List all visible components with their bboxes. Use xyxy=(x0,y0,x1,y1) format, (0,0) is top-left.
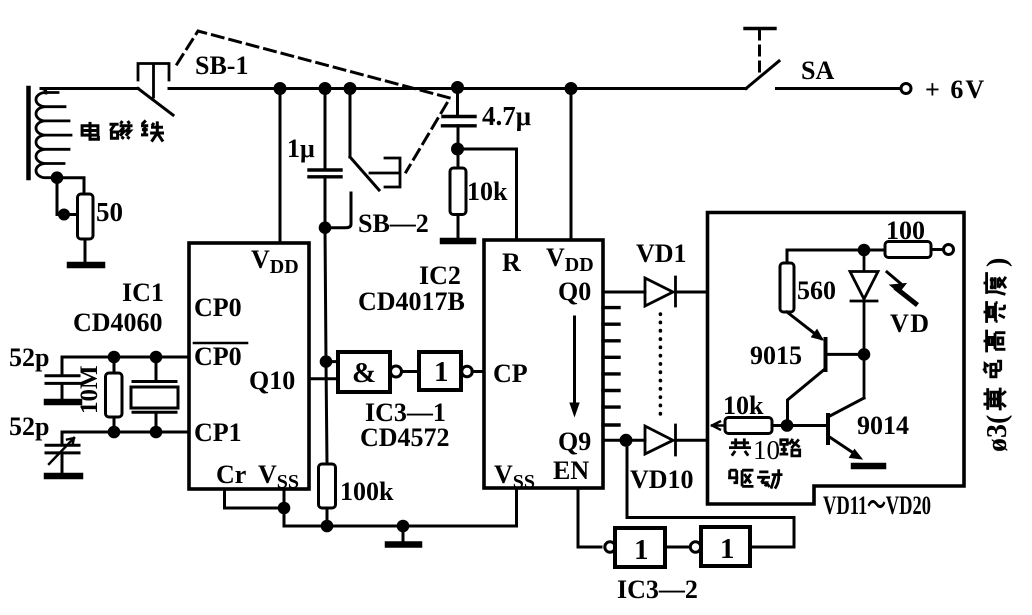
svg-text:1: 1 xyxy=(720,533,735,565)
label SA xyxy=(801,56,834,85)
svg-text:9015: 9015 xyxy=(750,341,802,370)
node Q9 junction xyxy=(621,435,631,445)
svg-text:EN: EN xyxy=(553,456,589,485)
wire ground rail bottom xyxy=(284,488,517,526)
node 1u cap rail junction xyxy=(320,84,330,94)
switch SB-2 button bracket xyxy=(370,158,400,187)
pin label VDD of IC2 xyxy=(546,243,594,276)
LED VD xyxy=(850,250,878,398)
wire IC3-2 output loop to Q9 node xyxy=(627,440,794,547)
svg-text:VD10: VD10 xyxy=(630,465,694,494)
ground center bottom xyxy=(388,526,419,545)
node coil bottom junction xyxy=(52,173,62,183)
transistor 9014 xyxy=(828,398,864,459)
svg-text:IC1: IC1 xyxy=(122,278,164,307)
svg-text:Cr: Cr xyxy=(216,460,246,489)
capacitor 1u xyxy=(309,170,341,177)
crystal XT xyxy=(131,357,178,432)
IC2 box CD4017B xyxy=(484,240,603,488)
wire IC1 Cr to VSS xyxy=(225,489,285,508)
svg-text:): ) xyxy=(982,258,1013,267)
svg-text:4.7μ: 4.7μ xyxy=(482,101,531,131)
gate IC3-1 AND xyxy=(338,352,402,392)
label 560 xyxy=(797,276,836,305)
pin label CP1 of IC1 xyxy=(194,418,242,447)
switch SB-2 top wire xyxy=(349,89,352,158)
ground under 52p fixed xyxy=(47,399,79,406)
wire inverter to IC2 CP xyxy=(472,370,484,373)
pin label VSS of IC1 xyxy=(258,460,299,493)
wire coil bottom to resistor top xyxy=(57,178,84,194)
label 100 xyxy=(886,216,925,245)
node IC1 VDD rail junction xyxy=(275,84,285,94)
svg-text:1μ: 1μ xyxy=(287,134,315,163)
label 9015 xyxy=(750,341,802,370)
wire 4.7u cap to node xyxy=(457,126,460,149)
svg-text:10k: 10k xyxy=(723,391,764,420)
svg-text:Q10: Q10 xyxy=(249,366,295,395)
svg-text:CD4060: CD4060 xyxy=(73,308,163,337)
svg-text:1: 1 xyxy=(434,356,449,388)
pin label Q0 of IC2 xyxy=(558,277,591,306)
node 100k bottom junction xyxy=(322,521,332,531)
wire SA to +6V terminal xyxy=(777,87,901,90)
svg-text:IC2: IC2 xyxy=(419,261,461,290)
dashed linkage SB-1 to SB-2 xyxy=(177,31,450,172)
resistor 100 xyxy=(885,242,943,258)
label 4.7u xyxy=(482,101,531,131)
node 4.7u cap rail junction xyxy=(453,83,463,93)
pin label Q10 of IC1 xyxy=(249,366,295,395)
resistor 100k xyxy=(319,464,336,526)
svg-text:52p: 52p xyxy=(9,412,49,441)
label CD4572 xyxy=(360,423,450,452)
label 52p bottom xyxy=(9,412,49,441)
wire top supply rail main segment xyxy=(169,87,746,90)
label 驱动 xyxy=(728,469,782,488)
wire 10k to 9014 base xyxy=(772,424,827,427)
resistor 50 xyxy=(78,194,94,239)
wire coil tap to resistor side xyxy=(57,178,77,215)
label CD4060 xyxy=(73,308,163,337)
label +6V xyxy=(925,75,986,104)
label 9014 xyxy=(857,411,909,440)
pin label EN of IC2 xyxy=(553,456,589,485)
svg-text:CP0: CP0 xyxy=(194,293,242,322)
pin label Q9 of IC2 xyxy=(558,427,591,456)
capacitor 52p trimmer xyxy=(46,432,79,473)
switch SB-2 blade xyxy=(350,157,379,190)
svg-text:CP: CP xyxy=(493,359,528,388)
svg-text:ø3(: ø3( xyxy=(982,415,1013,452)
wire resistor 50 to ground xyxy=(84,239,87,263)
ground under 52p trimmer xyxy=(47,473,80,480)
svg-text:10k: 10k xyxy=(467,177,508,206)
svg-text:CP1: CP1 xyxy=(194,418,242,447)
label IC3-1 xyxy=(365,398,446,427)
svg-text:SB—2: SB—2 xyxy=(358,209,429,238)
capacitor 4.7u xyxy=(443,117,476,126)
svg-text:IC3—2: IC3—2 xyxy=(617,575,698,604)
resistor 10M xyxy=(106,357,123,432)
label SB-1 xyxy=(195,51,248,80)
wire CP1 rail xyxy=(62,431,189,434)
wire VD10 to driver box xyxy=(676,439,708,442)
pin label CP of IC2 xyxy=(493,359,528,388)
wire 1u cap down to gate input node xyxy=(325,177,327,464)
svg-text:VD1: VD1 xyxy=(636,239,687,268)
svg-text:52p: 52p xyxy=(9,343,49,372)
pin label CP0-bar of IC1 xyxy=(194,342,247,371)
node 10M top xyxy=(109,352,119,362)
wire VD1 to driver box xyxy=(676,291,708,294)
svg-text:1: 1 xyxy=(634,534,649,566)
inductor electromagnet coil winding xyxy=(36,89,71,178)
terminal circle 100 xyxy=(944,245,954,255)
resistor 10k pull xyxy=(450,168,466,215)
label VD11~VD20 xyxy=(823,491,931,520)
label 100k xyxy=(340,477,394,506)
label 共10路 xyxy=(729,435,800,465)
node AND gate upper input junction xyxy=(321,357,331,367)
wire rail to IC2 VDD xyxy=(570,89,573,241)
label 10k xyxy=(467,177,508,206)
gate IC3-1 inverter xyxy=(419,352,472,390)
gate IC3-2 inverter B xyxy=(690,527,750,566)
svg-text:CD4572: CD4572 xyxy=(360,423,450,452)
node base junction xyxy=(782,421,792,431)
wire rail to IC1 VDD xyxy=(279,89,282,244)
svg-text:50: 50 xyxy=(96,197,123,227)
svg-text:CD4017B: CD4017B xyxy=(358,287,465,316)
gate IC3-2 inverter A xyxy=(605,528,665,567)
pin label VDD of IC1 xyxy=(251,245,299,278)
label 50 xyxy=(96,197,123,227)
switch SB-1 blade xyxy=(138,89,173,116)
wire AND to inverter xyxy=(402,370,419,373)
label 10k base xyxy=(723,391,764,420)
node ground tap junction xyxy=(398,521,408,531)
diode VD1 xyxy=(645,277,676,306)
svg-text:SB-1: SB-1 xyxy=(195,51,248,80)
label IC3-2 xyxy=(617,575,698,604)
svg-text:+ 6V: + 6V xyxy=(925,75,986,104)
terminal circle +6V xyxy=(901,84,911,94)
wire top node in driver xyxy=(787,249,885,252)
node 4.7u bottom junction xyxy=(453,144,463,154)
node crystal top xyxy=(151,352,161,362)
label VD1 xyxy=(636,239,687,268)
svg-text:Q0: Q0 xyxy=(558,277,591,306)
label CD4017B xyxy=(358,287,465,316)
label SB-2 xyxy=(358,209,429,238)
node crystal bottom xyxy=(151,427,161,437)
label 10M rotated xyxy=(76,365,103,414)
node SB-2 rail junction xyxy=(345,84,355,94)
svg-text:100: 100 xyxy=(886,216,925,245)
IC1 box CD4060 xyxy=(189,243,309,489)
svg-text:Q9: Q9 xyxy=(558,427,591,456)
wire Q0 to VD1 xyxy=(603,291,645,294)
label 电磁铁 xyxy=(82,121,164,142)
resistor 10k base with input arrow xyxy=(712,418,772,434)
wire node to IC2 R pin xyxy=(458,149,517,240)
svg-text:10: 10 xyxy=(753,435,780,465)
driver block box xyxy=(708,213,965,505)
svg-text:VD11～VD20: VD11～VD20 xyxy=(823,491,931,520)
inductor electromagnet coil core bar xyxy=(26,88,31,178)
node LED cathode junction xyxy=(859,350,869,360)
LED light arrow xyxy=(887,272,916,304)
svg-text:CP0: CP0 xyxy=(194,342,242,371)
svg-text:VD: VD xyxy=(890,309,931,338)
node 1u/SB-2 junction xyxy=(320,223,330,233)
pin label VSS of IC2 xyxy=(494,460,535,493)
IC2 output ticks Q1-Q8 xyxy=(603,308,619,425)
node IC2 VDD rail junction xyxy=(566,84,576,94)
wire IC2 EN down to inverter chain xyxy=(578,488,601,547)
pin label CP0 of IC1 xyxy=(194,293,242,322)
diode VD10 xyxy=(645,425,676,455)
label VD xyxy=(890,309,931,338)
resistor 560 xyxy=(780,250,794,312)
node tap junction xyxy=(60,210,69,219)
label 52p top xyxy=(9,343,49,372)
wire Q10 to gate xyxy=(309,377,338,380)
ground under 9014 xyxy=(854,463,883,470)
switch SB-2 bottom wire xyxy=(325,193,351,228)
node LED anode junction xyxy=(859,245,869,255)
capacitor 52p fixed xyxy=(46,357,79,399)
wire rail to 4.7u cap xyxy=(456,89,459,117)
dotted line between VD1 and VD10 xyxy=(659,314,663,416)
svg-text:9014: 9014 xyxy=(857,411,909,440)
label 1u xyxy=(287,134,315,163)
wire Q9 to VD10 xyxy=(603,439,645,442)
wire between IC3-2 gates xyxy=(665,546,688,549)
label IC1 xyxy=(122,278,164,307)
node 10M bottom xyxy=(109,427,119,437)
label IC2 xyxy=(419,261,461,290)
svg-text:560: 560 xyxy=(797,276,836,305)
switch SB-1 button bracket xyxy=(138,64,169,98)
wire IC1 VSS down xyxy=(283,489,286,526)
svg-text:SA: SA xyxy=(801,56,834,85)
svg-text:10M: 10M xyxy=(76,365,103,414)
wire node to 10k and 10k to ground xyxy=(457,149,460,239)
wire rail to 1u cap xyxy=(324,89,327,171)
node VSS Cr junction xyxy=(279,503,289,513)
ground under 50 xyxy=(70,262,102,269)
pin label R of IC2 xyxy=(502,248,521,277)
wire CP0bar rail xyxy=(62,356,189,359)
ground under 10k xyxy=(443,238,473,245)
label phi3 yellow high brightness vertical xyxy=(982,258,1013,452)
svg-text:R: R xyxy=(502,248,521,277)
arrow Q0 to Q9 inside IC2 xyxy=(570,317,579,416)
pin label Cr of IC1 xyxy=(216,460,246,489)
switch SA blade xyxy=(746,61,779,89)
label VD10 xyxy=(630,465,694,494)
switch SA actuator T bar xyxy=(745,29,775,78)
wire top supply rail left segment xyxy=(41,87,138,90)
svg-text:&: & xyxy=(352,357,376,389)
wire node to AND gate upper input xyxy=(326,360,338,363)
svg-text:100k: 100k xyxy=(340,477,394,506)
transistor 9015 xyxy=(787,312,864,426)
